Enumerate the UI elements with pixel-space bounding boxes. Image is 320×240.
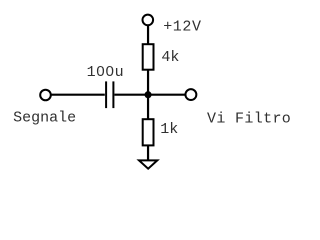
svg-text:4k: 4k — [161, 49, 179, 66]
svg-text:Vi Filtro: Vi Filtro — [207, 111, 291, 128]
svg-text:Segnale: Segnale — [13, 110, 76, 127]
svg-text:+12V: +12V — [163, 19, 201, 36]
svg-text:100u: 100u — [87, 64, 124, 81]
svg-text:1k: 1k — [160, 121, 178, 138]
